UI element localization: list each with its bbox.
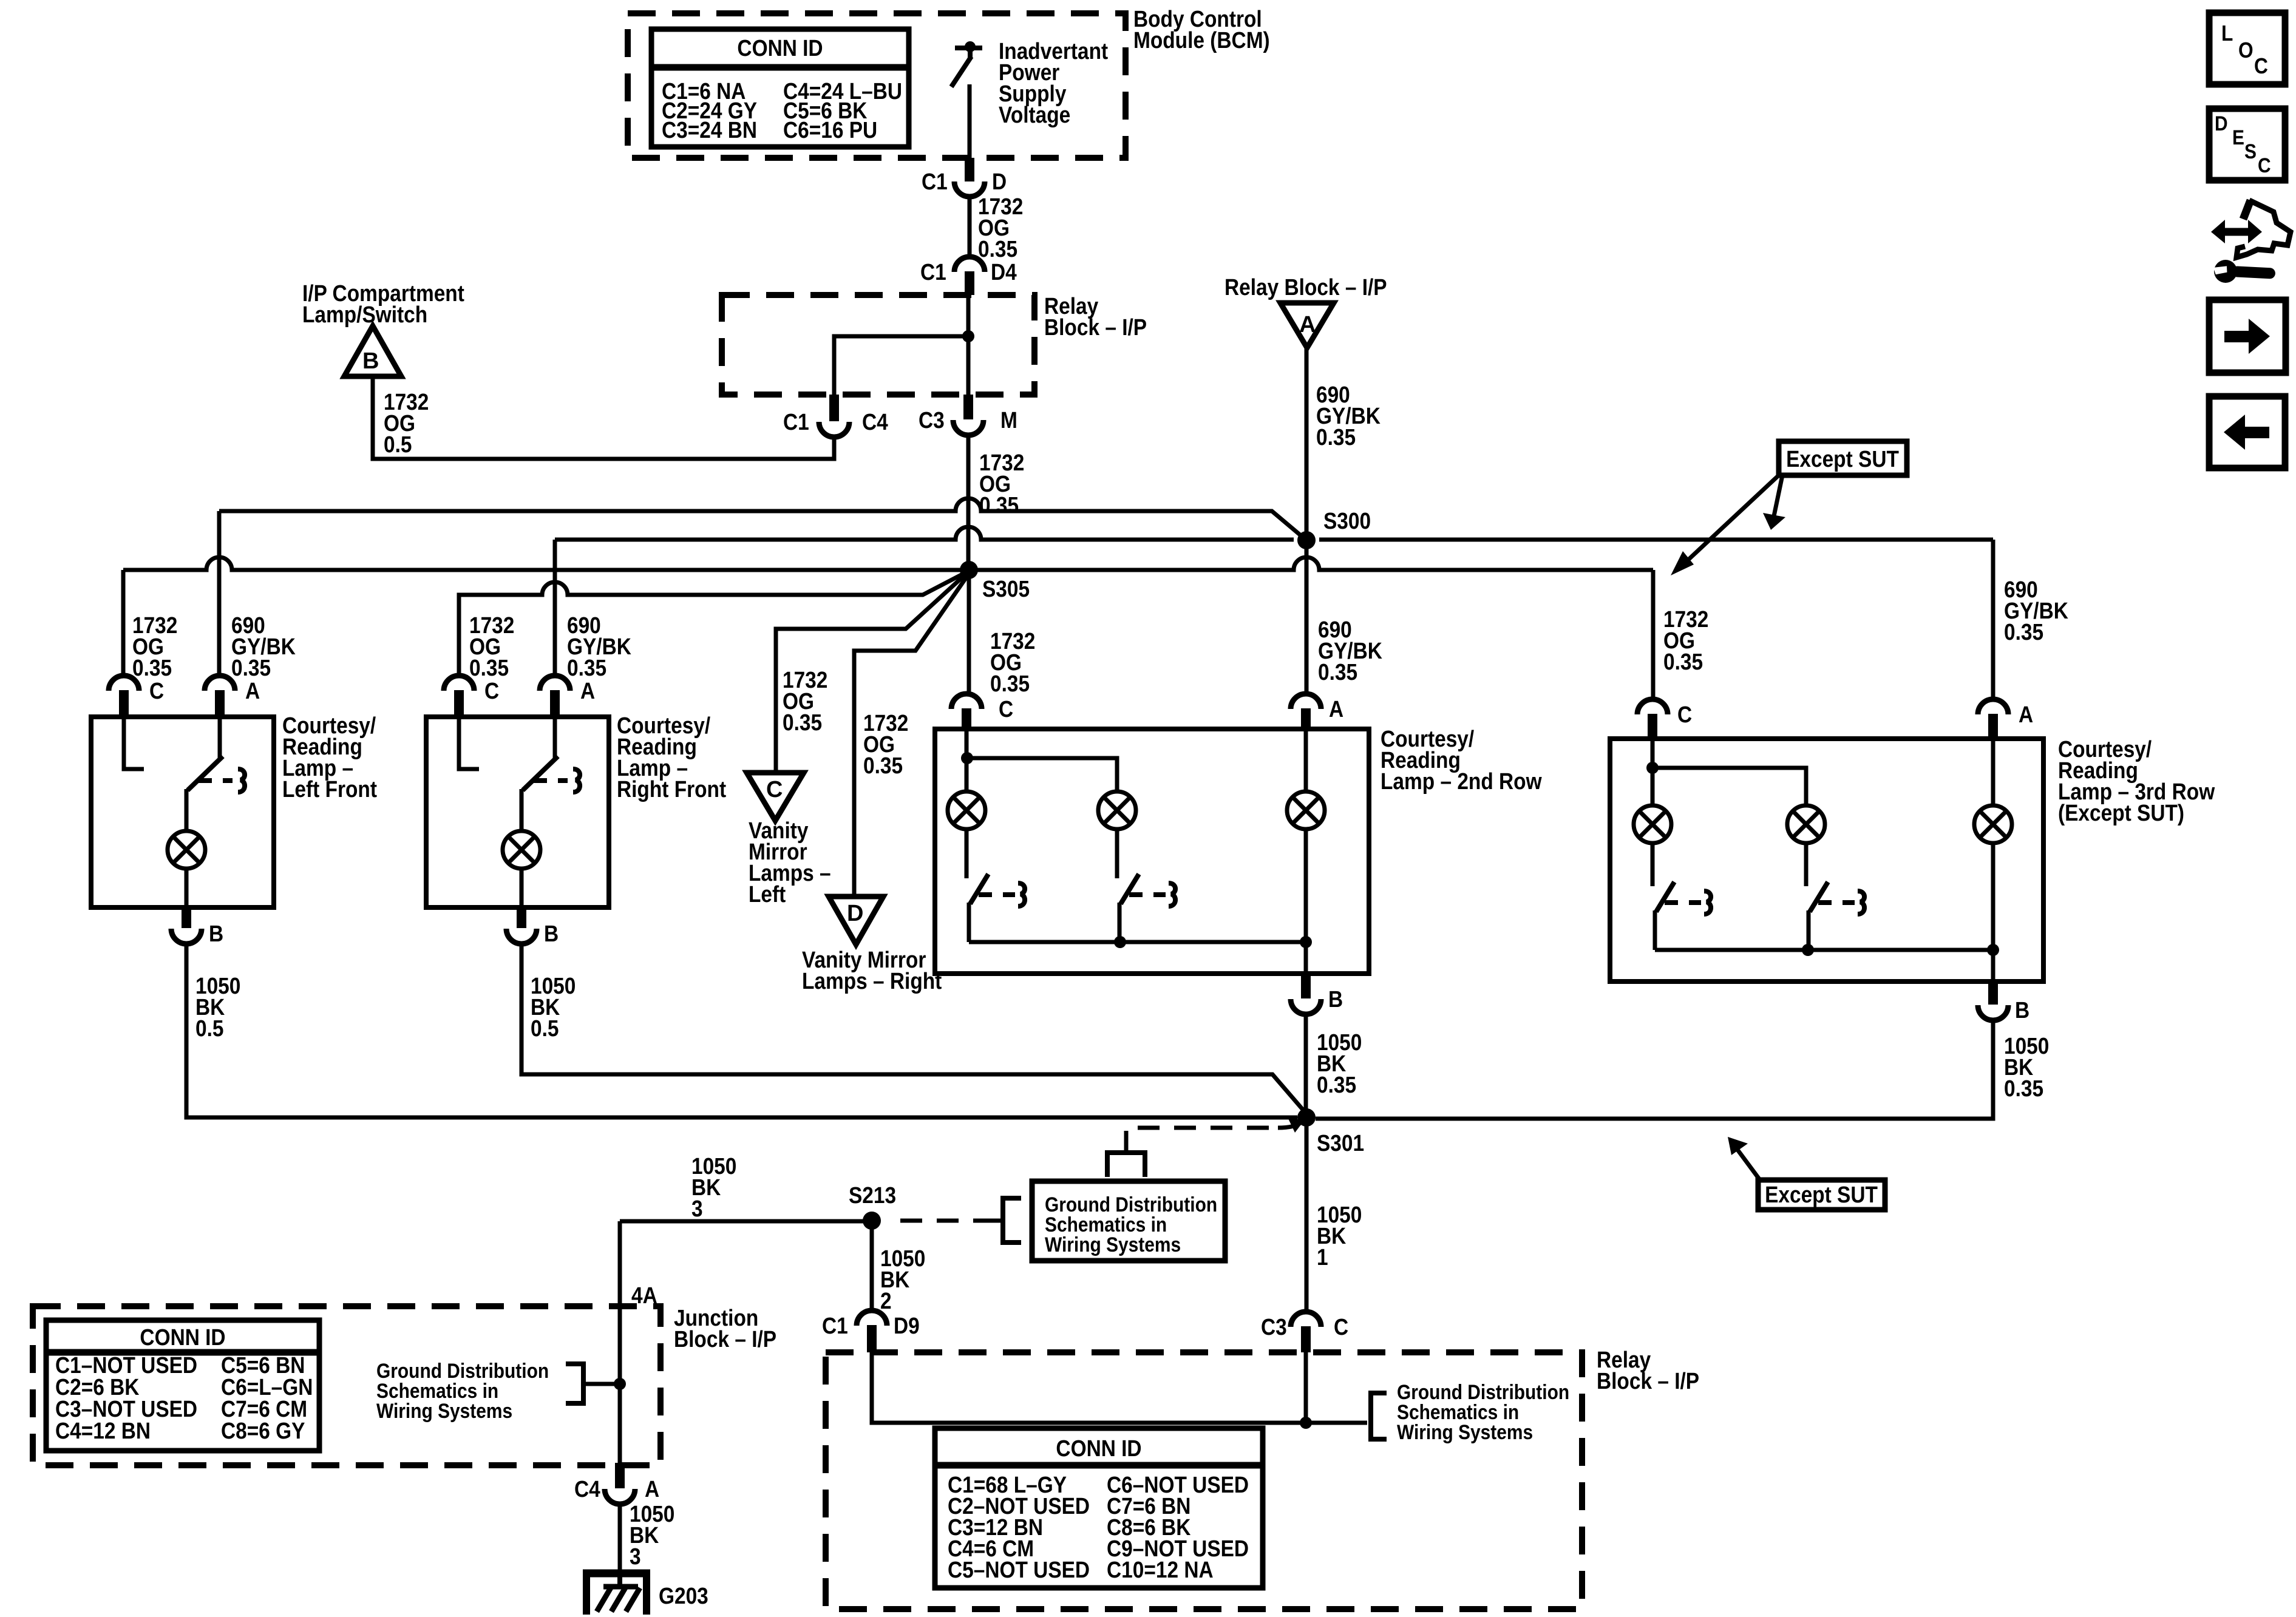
connector B stub 2nd row xyxy=(1301,974,1311,998)
svg-text:Relay Block – I/P: Relay Block – I/P xyxy=(1224,274,1387,300)
switch 2nd row 1 xyxy=(966,829,1025,942)
svg-text:Block – I/P: Block – I/P xyxy=(1597,1368,1699,1394)
svg-text:A: A xyxy=(2019,702,2033,727)
wire 1732 OG down to 3rd row C xyxy=(1651,570,1656,699)
svg-text:C: C xyxy=(999,696,1013,722)
svg-text:0.5: 0.5 xyxy=(531,1015,559,1041)
switch rail 3rd row xyxy=(1655,948,1993,952)
svg-text:C3=24 BN: C3=24 BN xyxy=(662,117,757,143)
svg-text:A: A xyxy=(645,1476,659,1502)
svg-text:C1: C1 xyxy=(920,259,946,285)
svg-text:S213: S213 xyxy=(849,1182,896,1208)
svg-text:A: A xyxy=(580,678,595,703)
connector B left front xyxy=(171,929,202,944)
svg-text:0.35: 0.35 xyxy=(1316,424,1356,450)
connector B 3rd row xyxy=(1978,1005,2008,1020)
connector B right front xyxy=(506,929,537,944)
wire 1732 OG down to left front C xyxy=(121,570,126,676)
switch: Inadvertant Power Supply Voltage xyxy=(951,41,982,158)
ground G203 xyxy=(583,1570,650,1615)
Body Control Module dashed box xyxy=(628,13,1126,158)
Relay Block I/P dashed box (bottom) xyxy=(826,1352,1582,1609)
icon forward arrow box xyxy=(2209,300,2286,373)
lamp3 down 3rd row xyxy=(1991,843,1995,981)
right front lamp box xyxy=(426,717,609,907)
svg-text:Wiring Systems: Wiring Systems xyxy=(1397,1420,1533,1443)
svg-text:C: C xyxy=(1677,702,1692,727)
svg-text:B: B xyxy=(544,921,559,946)
staple bracket above ground distribution box xyxy=(1107,1153,1145,1177)
svg-text:(Except SUT): (Except SUT) xyxy=(2058,800,2184,825)
svg-text:Block – I/P: Block – I/P xyxy=(1044,314,1147,340)
rail junction 2 xyxy=(1300,936,1312,948)
wire A to lamp3 xyxy=(1304,729,1308,792)
svg-text:0.35: 0.35 xyxy=(2004,619,2043,645)
Except SUT callout box (bottom) xyxy=(1758,1180,1885,1210)
left front lamp box xyxy=(91,717,274,907)
rail junction 4 xyxy=(1987,944,1999,956)
svg-text:2: 2 xyxy=(880,1288,892,1314)
icon DESC box xyxy=(2209,109,2285,180)
lamp3 down to box bottom xyxy=(1304,829,1308,974)
connector A 2nd row xyxy=(1291,694,1321,709)
switch left front xyxy=(186,717,233,832)
lamp 2nd row 1 xyxy=(948,792,985,829)
svg-text:CONN ID: CONN ID xyxy=(737,35,823,61)
wire C1/D9 to ground reference xyxy=(872,1352,1367,1423)
wire 690 GY/BK down to left front A xyxy=(217,511,222,676)
wire 1050 BK 0.35 3rd row to S301 xyxy=(1316,1020,1993,1119)
wire C3/C inside relay block xyxy=(1304,1352,1308,1423)
bus 690 GY/BK (S300 left to right-front A) xyxy=(555,527,1294,540)
branch to lamp2 xyxy=(967,758,1117,792)
svg-text:0.35: 0.35 xyxy=(863,753,903,778)
vanity mirror lamps left C triangle xyxy=(747,773,804,821)
arrow to 690 bus xyxy=(1773,475,1782,519)
svg-text:Left: Left xyxy=(749,881,786,907)
svg-text:3: 3 xyxy=(630,1544,641,1569)
svg-text:0.5: 0.5 xyxy=(195,1015,223,1041)
svg-text:B: B xyxy=(2015,997,2029,1023)
svg-text:C5–NOT USED: C5–NOT USED xyxy=(948,1557,1090,1582)
svg-text:0.35: 0.35 xyxy=(1318,659,1357,685)
wire 1050 BK 2 S213 to C1/D9 xyxy=(870,1221,874,1310)
dashed reference S213 to ground distribution text xyxy=(900,1219,987,1223)
connector C1 pin D9 xyxy=(857,1310,887,1326)
svg-text:D: D xyxy=(847,901,863,926)
svg-text:A: A xyxy=(245,678,260,703)
junction dot 4A xyxy=(614,1378,626,1390)
wire 1050 BK 0.5 left front to S301 xyxy=(186,943,1297,1117)
wire A to lamp3 3rd row xyxy=(1991,739,1995,805)
bus 690 GY/BK right (S300 to 3rd row A) xyxy=(1319,538,1993,542)
switch rail 2nd row xyxy=(969,940,1306,944)
svg-text:M: M xyxy=(1000,407,1017,433)
svg-text:C3: C3 xyxy=(1261,1314,1287,1340)
svg-text:Voltage: Voltage xyxy=(999,102,1070,127)
switch 3rd row 2 xyxy=(1806,843,1864,950)
connector C4/A stub xyxy=(615,1463,625,1488)
connector C1 pin C4 xyxy=(819,422,849,437)
svg-text:C1: C1 xyxy=(922,169,948,194)
bracket to 4A wire xyxy=(566,1364,583,1403)
svg-text:C: C xyxy=(2258,154,2271,177)
lamp right front xyxy=(503,831,540,869)
bracket ground distribution reference (relay block) xyxy=(1371,1393,1387,1439)
svg-text:C3: C3 xyxy=(919,407,945,433)
switch right front xyxy=(521,717,568,832)
connector B stub right front xyxy=(517,907,526,928)
wire 1732 OG to vanity mirror left xyxy=(776,572,968,773)
wire S305 down to 2nd row C xyxy=(967,570,971,694)
bracket for ground distribution reference (junction block) xyxy=(987,1219,1003,1223)
connector C4 pin A xyxy=(605,1489,635,1504)
wire 1050 BK 3 to junction block xyxy=(620,1219,868,1224)
svg-text:C: C xyxy=(484,678,499,703)
wire 690 GY/BK S300 down to 2nd row A xyxy=(1305,540,1309,694)
svg-text:0.35: 0.35 xyxy=(132,655,172,680)
svg-text:0.35: 0.35 xyxy=(469,655,509,680)
branch to lamp2 3rd row xyxy=(1652,768,1806,805)
wire 690 GY/BK down to 3rd row A xyxy=(1991,540,1995,699)
junction dot relay block xyxy=(1300,1417,1312,1429)
arrow to 1732 OG corner xyxy=(1679,475,1779,569)
svg-text:0.35: 0.35 xyxy=(978,236,1017,262)
svg-text:C: C xyxy=(149,678,164,703)
svg-text:C: C xyxy=(766,777,783,802)
lamp 3rd row 2 xyxy=(1787,805,1825,843)
svg-text:0.5: 0.5 xyxy=(384,432,412,457)
Relay CONN ID table xyxy=(935,1428,1263,1588)
svg-text:4A: 4A xyxy=(631,1283,657,1308)
wire 1050 BK 0.5 right front to S301 xyxy=(521,943,1306,1114)
wire C to lamp1 3rd row xyxy=(1651,739,1655,805)
svg-text:B: B xyxy=(1328,986,1343,1012)
Relay Block I/P dashed box (top) xyxy=(722,295,1034,395)
svg-text:Left Front: Left Front xyxy=(282,776,377,802)
lamp 2nd row 3 xyxy=(1287,792,1325,829)
svg-text:C1: C1 xyxy=(783,409,809,435)
splice S305 xyxy=(960,561,978,579)
svg-text:Except SUT: Except SUT xyxy=(1786,446,1899,472)
Ground Distribution Schematics box (S301) xyxy=(1032,1181,1225,1261)
svg-text:C4: C4 xyxy=(862,409,888,435)
connector A 3rd row xyxy=(1978,699,2008,714)
svg-text:S: S xyxy=(2244,140,2257,163)
svg-text:0.35: 0.35 xyxy=(783,710,822,735)
2nd row lamp box xyxy=(935,729,1369,974)
wire C to lamp1 xyxy=(965,729,969,792)
svg-text:C10=12 NA: C10=12 NA xyxy=(1107,1557,1214,1582)
svg-text:1: 1 xyxy=(1317,1244,1328,1270)
connector A left front xyxy=(205,676,235,691)
splice S300 xyxy=(1297,531,1316,549)
svg-text:C1: C1 xyxy=(822,1313,848,1338)
svg-text:D: D xyxy=(2215,112,2228,135)
svg-text:0.35: 0.35 xyxy=(231,655,271,680)
wire inside relay block xyxy=(966,295,971,395)
wire 1732 OG to vanity mirror right xyxy=(854,574,969,897)
icon LOC box xyxy=(2209,13,2285,84)
wire 4A through junction block xyxy=(618,1221,622,1463)
bus 690 GY/BK upper (S300 to left front lamp A) xyxy=(219,498,1306,540)
icon hand with arrow and wrench xyxy=(2211,200,2291,283)
off-page connector B triangle xyxy=(344,326,401,376)
svg-text:Block – I/P: Block – I/P xyxy=(674,1326,776,1352)
lamp left front xyxy=(168,831,205,869)
svg-text:B: B xyxy=(209,921,223,946)
Junction Block I/P dashed box xyxy=(33,1306,661,1465)
3rd row lamp box xyxy=(1610,739,2043,981)
svg-text:D4: D4 xyxy=(991,259,1017,285)
off-page connector A triangle xyxy=(1280,303,1334,348)
svg-text:C: C xyxy=(1334,1314,1348,1340)
connector C left front xyxy=(109,676,139,691)
lamp 3rd row 1 xyxy=(1634,805,1671,843)
wire 1050 BK 1 S301 to C3/C xyxy=(1305,1117,1309,1312)
svg-text:Lamp/Switch: Lamp/Switch xyxy=(302,302,427,327)
svg-text:L: L xyxy=(2221,21,2233,46)
connector C3/M stub xyxy=(963,395,973,419)
svg-text:G203: G203 xyxy=(659,1583,708,1609)
icon back arrow box xyxy=(2209,396,2285,468)
svg-text:Except SUT: Except SUT xyxy=(1765,1182,1878,1207)
svg-text:0.35: 0.35 xyxy=(1663,649,1703,674)
rail junction 3 xyxy=(1802,944,1814,956)
connector C1/C4 stub xyxy=(829,395,839,421)
svg-text:C6=16 PU: C6=16 PU xyxy=(783,117,877,143)
svg-text:Wiring Systems: Wiring Systems xyxy=(376,1399,512,1422)
svg-text:D9: D9 xyxy=(894,1313,920,1338)
lamp 2nd row 2 xyxy=(1098,792,1136,829)
wire 1050 BK 0.35 2nd row to S301 xyxy=(1304,1014,1308,1117)
splice S213 xyxy=(863,1212,881,1230)
svg-text:Right Front: Right Front xyxy=(617,776,726,802)
stub wire C inside xyxy=(124,717,144,769)
svg-text:S301: S301 xyxy=(1317,1130,1364,1156)
svg-text:0.35: 0.35 xyxy=(1317,1072,1356,1097)
svg-text:0.35: 0.35 xyxy=(567,655,606,680)
connector C right front xyxy=(444,676,474,691)
svg-text:D: D xyxy=(992,169,1007,194)
wire 690 GY/BK down to right front A xyxy=(553,540,557,676)
svg-text:0.35: 0.35 xyxy=(979,492,1019,518)
svg-text:E: E xyxy=(2232,126,2244,149)
svg-text:S300: S300 xyxy=(1323,508,1371,534)
switch 3rd row 1 xyxy=(1652,843,1711,950)
svg-text:0.35: 0.35 xyxy=(2004,1076,2043,1101)
lamp 3rd row 3 xyxy=(1974,805,2012,843)
wire 1732 OG 0.35 BCM to relay block xyxy=(968,197,972,257)
connector C1 pin D4 xyxy=(954,257,985,272)
rail junction 1 xyxy=(1114,936,1126,948)
splice S301 xyxy=(1297,1108,1316,1127)
svg-text:A: A xyxy=(1329,696,1343,722)
svg-text:Wiring Systems: Wiring Systems xyxy=(1045,1233,1181,1256)
svg-text:C4: C4 xyxy=(574,1476,600,1502)
arrow from bottom Except SUT to 1050 bus xyxy=(1734,1145,1760,1180)
svg-text:CONN ID: CONN ID xyxy=(140,1324,225,1350)
connector C3 pin M xyxy=(953,420,983,435)
svg-text:O: O xyxy=(2238,38,2254,63)
Junction CONN ID table xyxy=(46,1320,319,1451)
svg-text:Module (BCM): Module (BCM) xyxy=(1133,27,1270,53)
connector B stub 3rd row xyxy=(1988,981,1998,1005)
BCM CONN ID table xyxy=(651,29,909,147)
svg-text:B: B xyxy=(362,348,379,374)
wire 1732 OG 0.5 to I/P compartment lamp xyxy=(373,375,834,459)
connector C 3rd row xyxy=(1637,699,1668,714)
junction in relay block xyxy=(962,330,974,342)
connector C3 pin C xyxy=(1291,1312,1321,1327)
svg-text:C: C xyxy=(2254,54,2268,78)
connector C1/D stub xyxy=(965,158,974,181)
connector C1 pin D xyxy=(954,181,985,197)
junction 3rd row xyxy=(1646,762,1659,774)
connector B stub left front xyxy=(182,907,191,928)
svg-text:C8=6 GY: C8=6 GY xyxy=(221,1418,305,1443)
Except SUT callout box (top) xyxy=(1779,441,1907,475)
wire 1732 OG 0.35 M to S305 xyxy=(966,435,971,569)
svg-text:C4=12 BN: C4=12 BN xyxy=(55,1418,151,1443)
vanity mirror lamps right D triangle xyxy=(829,897,883,944)
svg-text:CONN ID: CONN ID xyxy=(1056,1436,1141,1461)
svg-text:3: 3 xyxy=(691,1196,703,1221)
wire 1732 OG right front C with hop xyxy=(459,572,967,676)
svg-text:Lamp – 2nd Row: Lamp – 2nd Row xyxy=(1381,768,1542,794)
svg-text:0.35: 0.35 xyxy=(990,671,1030,696)
svg-text:A: A xyxy=(1299,312,1316,337)
connector C 2nd row xyxy=(951,694,982,709)
svg-text:Lamps – Right: Lamps – Right xyxy=(802,968,942,994)
branch to C1/C4 xyxy=(834,336,968,395)
switch 2nd row 2 xyxy=(1117,829,1175,942)
wire 690 GY/BK 0.35 from A to S300 xyxy=(1305,348,1309,539)
junction 2nd row xyxy=(961,752,973,764)
dashed reference S301 to ground distribution box xyxy=(1126,1128,1278,1153)
connector B 2nd row xyxy=(1291,999,1321,1014)
svg-text:S305: S305 xyxy=(982,576,1030,602)
bus 1732 OG through S305 xyxy=(123,557,1653,570)
wire 1050 BK 3 to G203 xyxy=(618,1503,622,1573)
connector A right front xyxy=(540,676,570,691)
